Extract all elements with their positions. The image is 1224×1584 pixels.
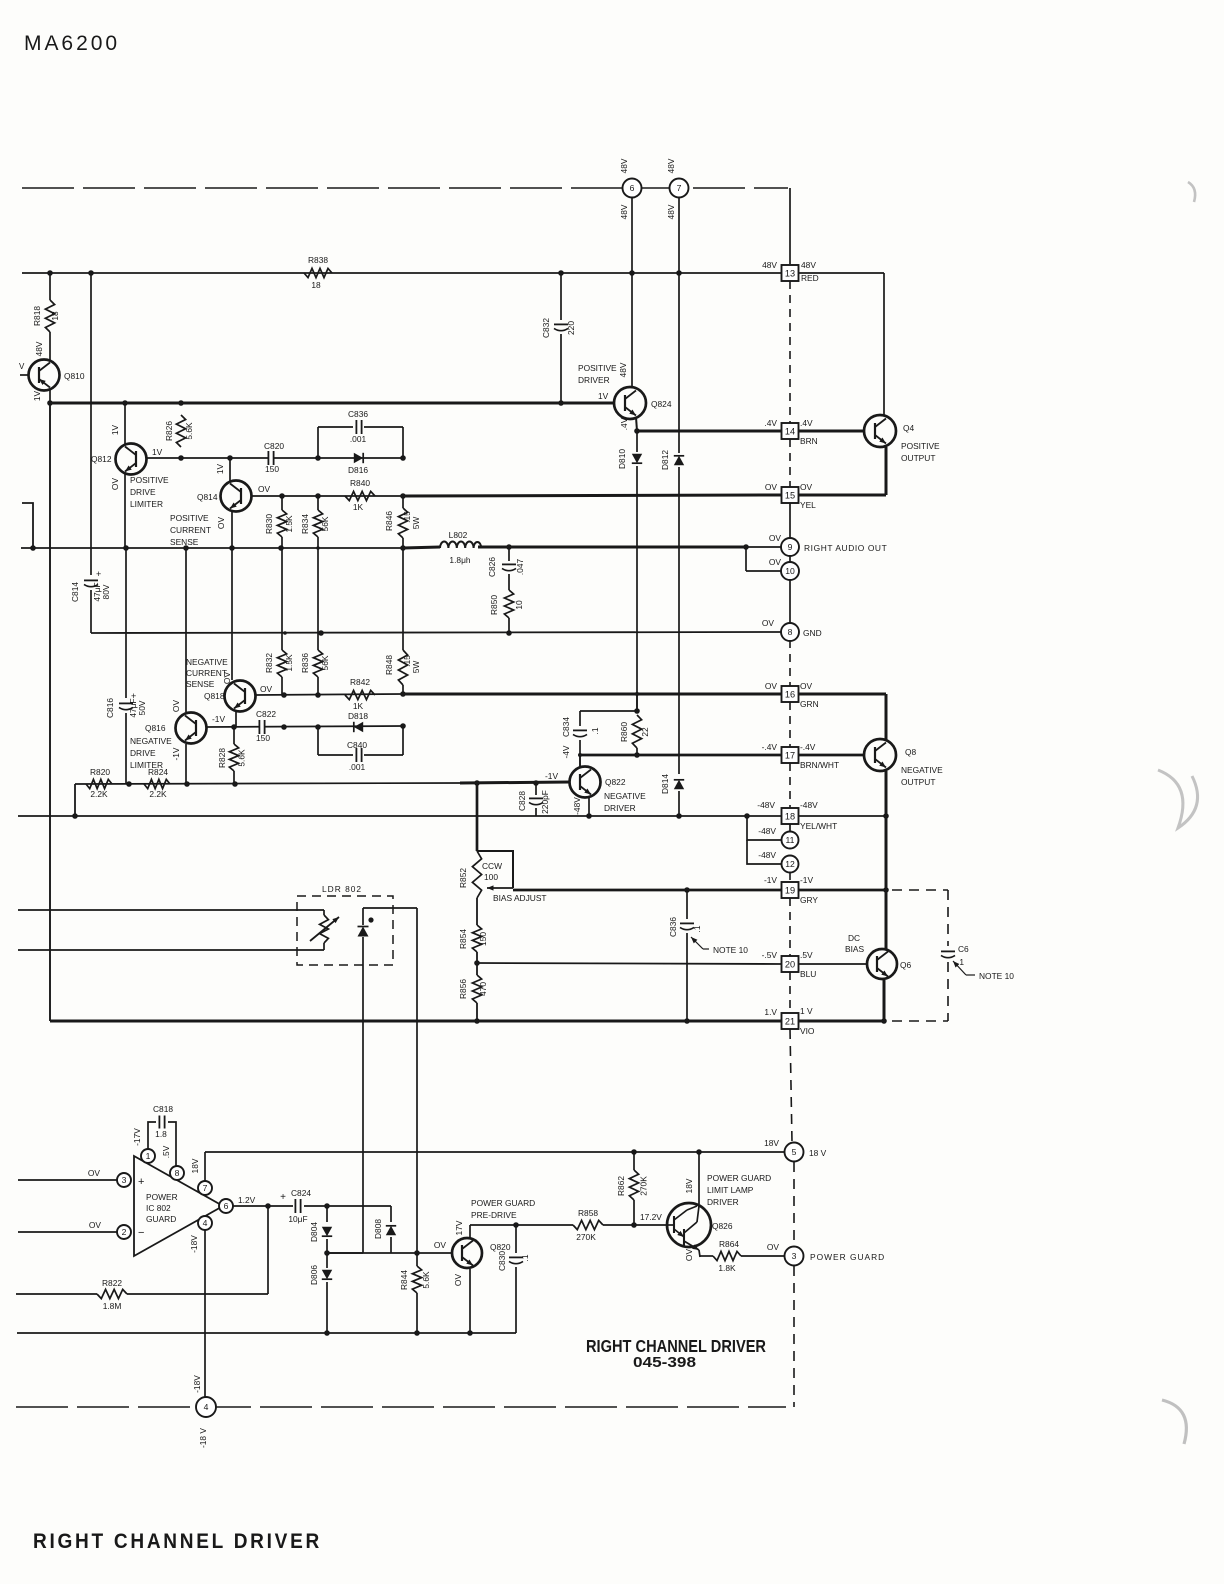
pin 6 output (219, 1199, 233, 1213)
wire box17 to Q8 base (799, 754, 864, 757)
wire -.4V row y=755 (thick) (580, 754, 781, 757)
svg-text:.001: .001 (349, 762, 366, 772)
svg-text:1.5K: 1.5K (284, 654, 294, 672)
svg-text:R852: R852 (458, 868, 468, 888)
svg-text:C834: C834 (561, 717, 571, 737)
svg-text:R856: R856 (458, 979, 468, 999)
svg-text:C830: C830 (497, 1251, 507, 1271)
capacitor C836 loop (318, 426, 353, 428)
capacitor C826 (508, 547, 510, 561)
resistor R820 (86, 779, 112, 788)
diode D814 (674, 780, 684, 789)
svg-text:5W: 5W (411, 661, 421, 674)
note 10 arrow (691, 937, 703, 949)
svg-text:1.V: 1.V (764, 1007, 777, 1017)
LED of LDR802 (362, 908, 364, 925)
svg-text:R830: R830 (264, 514, 274, 534)
svg-text:OV: OV (762, 618, 775, 628)
svg-text:1K: 1K (353, 502, 364, 512)
svg-text:R836: R836 (300, 653, 310, 673)
svg-text:1.5K: 1.5K (284, 515, 294, 533)
svg-text:OV: OV (453, 1274, 463, 1287)
svg-text:.5V: .5V (161, 1145, 171, 1158)
wire Q824 emitter to .4V row (636, 417, 637, 431)
svg-text:C822: C822 (256, 709, 276, 719)
svg-text:Q818: Q818 (204, 691, 225, 701)
svg-text:DC: DC (848, 933, 860, 943)
svg-text:SENSE: SENSE (186, 679, 215, 689)
svg-text:.1: .1 (692, 925, 702, 932)
svg-text:2: 2 (122, 1227, 127, 1237)
svg-text:220pF: 220pF (540, 790, 550, 814)
svg-text:18V: 18V (190, 1158, 200, 1173)
svg-text:18: 18 (50, 311, 60, 321)
node 8 GND (781, 623, 799, 641)
svg-text:CURRENT: CURRENT (170, 525, 211, 535)
svg-text:NEGATIVE: NEGATIVE (130, 736, 172, 746)
svg-text:2.2K: 2.2K (90, 789, 108, 799)
capacitor C814 (90, 273, 92, 575)
svg-text:Q822: Q822 (605, 777, 626, 787)
svg-text:R832: R832 (264, 653, 274, 673)
svg-text:-1V: -1V (800, 875, 813, 885)
resistor R822 (16, 1293, 97, 1295)
transistor Q824 positive driver (614, 387, 646, 419)
svg-text:C824: C824 (291, 1188, 311, 1198)
svg-text:D804: D804 (309, 1222, 319, 1242)
svg-text:Q8: Q8 (905, 747, 917, 757)
svg-text:OV: OV (767, 1242, 780, 1252)
svg-text:C832: C832 (541, 318, 551, 338)
wire box19 right to DC bias column (799, 889, 886, 892)
svg-text:.001: .001 (350, 434, 367, 444)
svg-text:4: 4 (203, 1218, 208, 1228)
svg-text:-48V: -48V (758, 826, 776, 836)
wire Q826 collector to 18V row (698, 1152, 700, 1204)
svg-text:LIMIT LAMP: LIMIT LAMP (707, 1185, 754, 1195)
svg-text:6: 6 (224, 1201, 229, 1211)
svg-text:POWER GUARD: POWER GUARD (471, 1198, 535, 1208)
svg-text:-48V: -48V (800, 800, 818, 810)
node 6 (48V) (623, 179, 642, 198)
svg-text:.4V: .4V (619, 417, 629, 430)
svg-text:1K: 1K (353, 701, 364, 711)
wire R818 to Q810 (49, 332, 51, 360)
svg-text:NEGATIVE: NEGATIVE (186, 657, 228, 667)
svg-text:NOTE 10: NOTE 10 (713, 945, 748, 955)
svg-text:C836: C836 (668, 917, 678, 937)
svg-text:5W: 5W (411, 517, 421, 530)
svg-text:RIGHT AUDIO OUT: RIGHT AUDIO OUT (804, 543, 887, 553)
capacitor C820 (268, 451, 273, 465)
svg-text:48V: 48V (619, 158, 629, 173)
svg-text:BIAS: BIAS (845, 944, 864, 954)
wire R864 to node 3 (741, 1255, 784, 1257)
capacitor C816 (125, 548, 127, 698)
svg-text:POWER GUARD: POWER GUARD (707, 1173, 771, 1183)
svg-text:OV: OV (258, 484, 271, 494)
svg-text:-.4V: -.4V (800, 742, 816, 752)
svg-text:1.8: 1.8 (155, 1129, 167, 1139)
svg-text:V: V (19, 362, 25, 371)
wire Q812 collector to 1V rail (124, 403, 126, 444)
svg-text:POSITIVE: POSITIVE (170, 513, 209, 523)
pin 4 to -18V (198, 1216, 212, 1230)
svg-text:10μF: 10μF (288, 1214, 307, 1224)
svg-text:-17V: -17V (132, 1128, 142, 1146)
svg-text:C836: C836 (348, 409, 368, 419)
wire 48V column to Q824 collector (631, 197, 633, 273)
svg-text:16: 16 (785, 690, 795, 700)
wire Q814 base row y=496 (252, 495, 403, 497)
svg-text:R820: R820 (90, 767, 110, 777)
svg-text:1 V: 1 V (800, 1006, 813, 1016)
transistor Q814 positive current sense (221, 481, 252, 512)
svg-text:2.2K: 2.2K (149, 789, 167, 799)
node 12 (782, 856, 799, 873)
svg-text:D806: D806 (309, 1265, 319, 1285)
capacitor C6 (941, 950, 955, 952)
svg-text:Q820: Q820 (490, 1242, 511, 1252)
wire Q816 emitter column up to 0V row (185, 548, 187, 712)
svg-text:PRE-DRIVE: PRE-DRIVE (471, 1210, 517, 1220)
wire Q820 emitter to bottom row (469, 1269, 471, 1333)
node 10 (781, 562, 799, 580)
svg-text:+: + (280, 1192, 286, 1203)
svg-text:18 V: 18 V (809, 1148, 827, 1158)
svg-text:SENSE: SENSE (170, 537, 199, 547)
terminal box 21 (782, 1013, 799, 1029)
svg-text:270K: 270K (639, 1176, 649, 1196)
svg-text:1V: 1V (32, 390, 42, 401)
wire Q8 emitter column (thick) (885, 771, 888, 890)
svg-text:Q810: Q810 (64, 371, 85, 381)
svg-text:150: 150 (256, 733, 270, 743)
wire LED top to R844 column (363, 907, 417, 909)
svg-text:1.8M: 1.8M (103, 1301, 122, 1311)
svg-text:NOTE 10: NOTE 10 (979, 971, 1014, 981)
wire Q812 base row y=458 (147, 457, 403, 459)
svg-text:OV: OV (434, 1240, 447, 1250)
op-amp IC802 power guard (134, 1156, 223, 1256)
svg-text:D812: D812 (660, 450, 670, 470)
wire 48V bus corner down to terminal 13 (789, 188, 791, 264)
wire branch to node 12 (747, 840, 781, 864)
resistor R854 (472, 925, 481, 952)
svg-text:OUTPUT: OUTPUT (901, 453, 935, 463)
svg-text:L802: L802 (449, 530, 468, 540)
svg-text:-48V: -48V (758, 850, 776, 860)
svg-text:R844: R844 (399, 1270, 409, 1290)
svg-text:OV: OV (800, 681, 813, 691)
diode D812 (678, 197, 680, 273)
svg-text:18: 18 (785, 812, 795, 822)
svg-text:12: 12 (785, 859, 795, 869)
pin 3 non-inverting input (18, 1179, 117, 1181)
svg-text:C814: C814 (70, 582, 80, 602)
svg-text:220: 220 (566, 321, 576, 335)
wire row y=1253 to Q820 base (327, 1252, 452, 1254)
resistor R862 (633, 1152, 635, 1170)
svg-text:R846: R846 (384, 511, 394, 531)
node 4 (-18V) (196, 1397, 216, 1417)
svg-text:5.6K: 5.6K (184, 422, 194, 440)
wire 1V row y=1021 (thick) (50, 1020, 781, 1023)
resistor R848 (402, 548, 404, 650)
resistor R864 (713, 1251, 741, 1260)
svg-text:Q4: Q4 (903, 423, 915, 433)
scan artifact curl middle right (1158, 770, 1198, 828)
svg-text:R850: R850 (489, 595, 499, 615)
wire box20 to Q6 base (799, 963, 867, 965)
svg-text:8: 8 (175, 1168, 180, 1178)
capacitor C824 (294, 1199, 296, 1213)
svg-text:-1V: -1V (212, 714, 225, 724)
svg-text:R864: R864 (719, 1239, 739, 1249)
svg-text:OV: OV (800, 482, 813, 492)
terminal box 15 (782, 487, 799, 503)
svg-text:22: 22 (640, 727, 650, 737)
svg-text:CCW: CCW (482, 861, 502, 871)
wire branch to node 10 (745, 547, 747, 571)
pin 1 with C818 loop (141, 1149, 155, 1163)
capacitor C832 (560, 273, 562, 320)
svg-text:BRN/WHT: BRN/WHT (800, 760, 839, 770)
wire terminal13 to Q4 collector (799, 272, 884, 274)
svg-text:1V: 1V (215, 463, 225, 474)
svg-text:OV: OV (765, 681, 778, 691)
wire -48V row y=816 (18, 815, 782, 817)
wire Q816 collector to -1V row (185, 744, 187, 784)
svg-text:R828: R828 (217, 748, 227, 768)
wire GND row y=633 (91, 632, 782, 633)
svg-text:DRIVE: DRIVE (130, 748, 156, 758)
svg-text:R854: R854 (458, 929, 468, 949)
wire -.5V row y=964 (477, 963, 781, 964)
transistor Q6 DC bias (867, 949, 897, 979)
resistor R826 (176, 415, 185, 447)
svg-text:11: 11 (786, 835, 795, 845)
svg-text:DRIVER: DRIVER (604, 803, 636, 813)
wire 48V row y=273 (22, 272, 781, 274)
wire Q822 emitter to -48V row (588, 797, 590, 816)
pin 8 (170, 1166, 184, 1180)
svg-text:GUARD: GUARD (146, 1214, 176, 1224)
svg-text:5.6K: 5.6K (237, 749, 247, 767)
svg-text:.5V: .5V (800, 950, 813, 960)
svg-text:OV: OV (89, 1220, 102, 1230)
wire Q812 emitter to 0V row (124, 474, 126, 548)
svg-text:10: 10 (785, 566, 795, 576)
resistor R856 (472, 975, 481, 1003)
svg-text:OV: OV (110, 478, 120, 491)
svg-text:RIGHT CHANNEL DRIVER: RIGHT CHANNEL DRIVER (33, 1530, 322, 1553)
wire box18 right to Q8 column (799, 815, 886, 817)
resistor R842 (345, 690, 375, 699)
svg-text:13: 13 (785, 269, 795, 279)
svg-text:D810: D810 (617, 449, 627, 469)
svg-text:Q826: Q826 (712, 1221, 733, 1231)
potentiometer R852 bias adjust (477, 851, 513, 888)
wire box16 to Q8 collector (799, 693, 886, 696)
wire Q814 emitter column down to Q818 (231, 511, 233, 680)
wire R834 column to R836 (317, 548, 319, 650)
svg-text:OV: OV (171, 700, 181, 713)
wire terminal chain dashed links x=790 (789, 281, 791, 423)
capacitor C836 note10 (686, 890, 688, 919)
svg-text:Q6: Q6 (900, 960, 912, 970)
svg-text:R826: R826 (164, 421, 174, 441)
resistor R830 (281, 496, 283, 510)
resistor R828 (233, 727, 235, 744)
svg-text:18V: 18V (764, 1138, 779, 1148)
svg-text:R842: R842 (350, 677, 370, 687)
svg-text:-1V: -1V (764, 875, 777, 885)
terminal box 20 (782, 956, 799, 972)
svg-text:Q812: Q812 (91, 454, 112, 464)
capacitor C828 (535, 783, 537, 795)
wire box21 right (thick then dashed) (799, 1020, 884, 1023)
svg-text:100: 100 (484, 872, 498, 882)
svg-text:150: 150 (265, 464, 279, 474)
wire box15 to Q4 emitter (799, 494, 886, 497)
svg-text:POSITIVE: POSITIVE (901, 441, 940, 451)
svg-text:-48V: -48V (572, 797, 582, 815)
wire pin6 row y=1206 (233, 1205, 293, 1207)
svg-text:8: 8 (788, 627, 793, 637)
svg-text:C840: C840 (347, 740, 367, 750)
svg-text:Q814: Q814 (197, 492, 218, 502)
wire -18V dashed rail y=1407 (16, 1406, 786, 1408)
svg-text:D808: D808 (373, 1219, 383, 1239)
transistor Q820 power guard pre-drive (452, 1238, 482, 1268)
resistor R834 (317, 496, 319, 510)
capacitor C830 (515, 1225, 517, 1253)
wire R860 top tap to 0V GRN row (636, 694, 638, 711)
svg-text:.4V: .4V (800, 418, 813, 428)
svg-text:20: 20 (785, 960, 795, 970)
wire Q822 collector node to -.4V row (579, 755, 581, 767)
svg-text:56K: 56K (320, 516, 330, 531)
pin 2 inverting input (18, 1231, 117, 1233)
svg-text:C828: C828 (517, 791, 527, 811)
transistor Q812 positive drive limiter (116, 444, 147, 475)
wire Q6 emitter to 1V row (thick) (883, 980, 886, 1021)
svg-text:.1: .1 (957, 957, 964, 967)
svg-text:1V: 1V (152, 447, 163, 457)
transistor Q4 positive output (864, 415, 896, 447)
pin 7 to 18V row (198, 1181, 212, 1195)
svg-text:MA6200: MA6200 (24, 31, 120, 55)
svg-text:R858: R858 (578, 1208, 598, 1218)
svg-text:470: 470 (478, 982, 488, 996)
svg-text:-4V: -4V (561, 745, 571, 758)
scan artifact curl bottom right (1162, 1400, 1186, 1444)
diode D806 (322, 1270, 332, 1279)
capacitor C818 (158, 1116, 160, 1129)
svg-text:OV: OV (684, 1249, 694, 1262)
terminal box 17 (782, 747, 799, 763)
transistor Q818 negative current sense (225, 681, 256, 712)
wire Q820 collector to drive row (469, 1225, 471, 1238)
svg-text:14: 14 (785, 427, 795, 437)
svg-text:1.2V: 1.2V (238, 1195, 256, 1205)
note 10 arrow right (953, 961, 966, 975)
svg-text:-18V: -18V (192, 1375, 202, 1393)
svg-text:YEL/WHT: YEL/WHT (800, 821, 837, 831)
svg-text:DRIVER: DRIVER (578, 375, 610, 385)
svg-text:1: 1 (146, 1151, 151, 1161)
wire 18V row y=1152 (205, 1151, 784, 1153)
wire pre-drive row y=1225 (470, 1224, 573, 1226)
svg-text:D814: D814 (660, 774, 670, 794)
wire branch to node 11 (747, 816, 781, 840)
svg-text:1.8μh: 1.8μh (449, 555, 470, 565)
capacitor C822 (259, 720, 264, 734)
wire photoresistor bottom row y=950 (323, 943, 325, 950)
svg-text:3: 3 (122, 1175, 127, 1185)
resistor R832 (277, 650, 286, 677)
wire Q814 collector to row 458 (229, 458, 231, 481)
wire Q826 emitter to R864 (700, 1255, 713, 1257)
svg-text:3: 3 (792, 1251, 797, 1261)
svg-text:.4V: .4V (764, 418, 777, 428)
svg-text:+: + (138, 1176, 144, 1188)
diode D816 (354, 453, 363, 463)
svg-text:OV: OV (88, 1168, 101, 1178)
svg-text:5.6K: 5.6K (421, 1271, 431, 1289)
wire output row thick through L802 (403, 547, 440, 548)
svg-text:OV: OV (769, 557, 782, 567)
wire 48V drop to R818 (49, 273, 51, 300)
svg-text:BRN: BRN (800, 436, 818, 446)
LDR 802 dashed box (297, 896, 393, 965)
resistor R844 (412, 1266, 421, 1293)
resistor R836 (313, 650, 322, 677)
resistor R818 (45, 300, 54, 332)
svg-text:OV: OV (260, 684, 273, 694)
svg-text:R818: R818 (32, 306, 42, 326)
svg-text:C818: C818 (153, 1104, 173, 1114)
svg-text:48V: 48V (34, 341, 44, 356)
svg-text:C816: C816 (105, 698, 115, 718)
diode D810 (636, 431, 638, 452)
svg-text:9: 9 (788, 542, 793, 552)
wire 0V-GRN row y=694 (thick) to terminal 16 (403, 693, 781, 696)
wire 0V output row left thin (21, 547, 403, 549)
terminal box 16 (782, 686, 799, 702)
wire Q816 base row y=727 (207, 726, 403, 727)
svg-text:15: 15 (785, 491, 795, 501)
svg-text:-1V: -1V (171, 747, 181, 760)
svg-text:18V: 18V (684, 1178, 694, 1193)
svg-text:-18V: -18V (189, 1235, 199, 1253)
wire Q818 collector stub (235, 712, 237, 727)
wire photoresistor top row y=910 (18, 909, 324, 911)
svg-text:-18 V: -18 V (198, 1428, 208, 1448)
svg-text:OUTPUT: OUTPUT (901, 777, 935, 787)
svg-text:−: − (138, 1227, 144, 1239)
svg-text:1V: 1V (110, 424, 120, 435)
wire dashed corner power guard column (793, 1266, 795, 1407)
svg-text:48V: 48V (666, 158, 676, 173)
svg-text:NEGATIVE: NEGATIVE (604, 791, 646, 801)
svg-text:R824: R824 (148, 767, 168, 777)
wire 0V-YEL row y=495 (thick) to terminal 15 (403, 495, 781, 496)
resistor R840 (345, 491, 375, 500)
svg-text:19: 19 (785, 886, 795, 896)
svg-text:DRIVE: DRIVE (130, 487, 156, 497)
